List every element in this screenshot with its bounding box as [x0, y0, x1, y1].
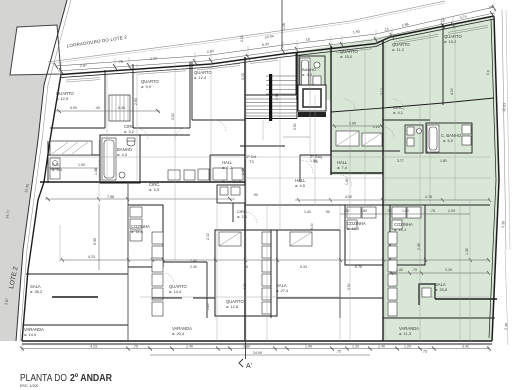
- long wall y182: [40, 181, 245, 183]
- svg-text:a: 9,9: a: 9,9: [141, 84, 152, 89]
- bed diag quarto 12,8: [219, 232, 241, 246]
- internal dim line y111: [55, 110, 160, 112]
- quarto 12,8 walls: [215, 230, 277, 316]
- neighbouring lot grey area top-left: [0, 0, 67, 341]
- svg-text:PLANTA DO: PLANTA DO: [20, 372, 67, 384]
- sala 33,8 bottom wall: [435, 298, 497, 300]
- svg-text:.75: .75: [133, 345, 138, 349]
- svg-text:1.35: 1.35: [465, 248, 469, 255]
- hatched pergola rect: [50, 141, 92, 155]
- dim under green quartos: [331, 125, 383, 127]
- banho walls: [100, 135, 140, 183]
- svg-text:a: 14,0: a: 14,0: [24, 332, 37, 337]
- svg-text:3.50: 3.50: [347, 283, 351, 290]
- svg-text:5.40: 5.40: [118, 106, 125, 110]
- internal dim line y213 right small: [340, 213, 470, 215]
- svg-text:2.38: 2.38: [504, 323, 509, 330]
- svg-text:a: 7,2: a: 7,2: [222, 165, 233, 170]
- right exterior wall: [492, 16, 499, 341]
- svg-text:2.02: 2.02: [240, 35, 244, 42]
- svg-text:1.80: 1.80: [440, 159, 447, 163]
- svg-text:1.40: 1.40: [186, 345, 193, 349]
- svg-text:.15: .15: [439, 18, 445, 23]
- svg-text:a: 15,0: a: 15,0: [340, 54, 353, 59]
- svg-text:.75: .75: [422, 350, 427, 354]
- svg-text:a: 12,9: a: 12,9: [56, 96, 69, 101]
- internal dim line y260: [60, 259, 490, 261]
- svg-text:.75: .75: [412, 268, 417, 272]
- svg-text:4.00: 4.00: [310, 223, 314, 230]
- svg-text:C. BANHO: C. BANHO: [222, 179, 241, 184]
- svg-text:5.00: 5.00: [70, 106, 77, 110]
- hall green walls: [300, 154, 331, 156]
- svg-text:6.76: 6.76: [355, 265, 362, 269]
- svg-text:4.30: 4.30: [450, 88, 454, 95]
- top dimension line upper (overall): [56, 7, 494, 66]
- cbanho middle box: [217, 185, 245, 203]
- green bathroom top right: [299, 56, 325, 94]
- internal dim line y199: [45, 198, 235, 200]
- wall quarto2 bottom: [133, 127, 190, 129]
- svg-text:1.40: 1.40: [305, 345, 312, 349]
- vertical dim 6.90: [98, 205, 100, 270]
- svg-text:2.93: 2.93: [134, 98, 138, 105]
- landing dim tick: [262, 120, 264, 140]
- hall walls middle: [210, 154, 245, 156]
- bottom exterior wall: [22, 340, 492, 342]
- svg-text:2.29: 2.29: [448, 209, 455, 213]
- svg-text:2.80: 2.80: [243, 345, 250, 349]
- ticks on y199/200: [97, 197, 491, 202]
- small fixtures row circ: [168, 170, 180, 180]
- svg-text:.75: .75: [344, 209, 349, 213]
- door swing arcs: [136, 99, 404, 284]
- svg-text:.75: .75: [430, 209, 435, 213]
- cozinha mid walls: [345, 205, 383, 265]
- svg-text:a: 11,5: a: 11,5: [131, 229, 144, 234]
- svg-text:1.20: 1.20: [404, 345, 411, 349]
- stair core: [245, 76, 297, 116]
- svg-text:3.77: 3.77: [397, 159, 404, 163]
- svg-text:1.90: 1.90: [78, 163, 85, 167]
- varanda divider x383 low: [382, 200, 384, 341]
- svg-text:24.90: 24.90: [253, 351, 262, 355]
- tub in top bathroom: [300, 58, 310, 90]
- svg-text:2.45: 2.45: [417, 243, 421, 250]
- internal dim line y200 right: [295, 199, 490, 201]
- svg-text:a: 11,3: a: 11,3: [399, 331, 412, 336]
- green unit left wall top: [296, 52, 298, 100]
- circ 2,4 walls: [232, 203, 234, 222]
- svg-text:a: 4,3: a: 4,3: [117, 152, 128, 157]
- green unit bathroom fixtures: [405, 125, 423, 153]
- laundry walls: [48, 154, 100, 156]
- svg-text:a: 4,1: a: 4,1: [393, 110, 404, 115]
- elevator shaft: [298, 85, 326, 111]
- svg-text:6.90: 6.90: [93, 238, 97, 245]
- svg-text:1.20: 1.20: [352, 345, 359, 349]
- circ 4,1 walls: [383, 119, 430, 121]
- svg-text:.40: .40: [95, 106, 100, 110]
- svg-text:a: 14,4: a: 14,4: [169, 289, 182, 294]
- svg-text:1.48: 1.48: [94, 168, 98, 175]
- svg-text:4.23: 4.23: [90, 345, 97, 349]
- top dim ticks and labels: [54, 5, 496, 74]
- svg-text:7.88: 7.88: [107, 195, 114, 199]
- svg-text:.15: .15: [243, 265, 248, 269]
- wall quarto1 right: [104, 70, 106, 128]
- closet hatch block: [109, 95, 130, 121]
- svg-text:a: 33,8: a: 33,8: [435, 287, 448, 292]
- svg-text:1.40: 1.40: [304, 210, 311, 214]
- svg-text:2.87: 2.87: [80, 63, 87, 68]
- dim line y273 right: [390, 272, 489, 274]
- small rotated interior dims: [94, 23, 490, 310]
- section line A': [245, 341, 247, 359]
- svg-text:a: 3,0: a: 3,0: [302, 72, 313, 77]
- svg-text:.15: .15: [305, 37, 311, 42]
- laundry fixtures: [50, 158, 60, 168]
- svg-text:3.30: 3.30: [171, 113, 175, 120]
- varanda walls left: [23, 324, 128, 326]
- svg-text:A': A': [246, 363, 252, 370]
- bathtub left: [102, 138, 116, 180]
- toilet left banho: [127, 140, 135, 146]
- svg-text:2.40: 2.40: [190, 259, 197, 263]
- svg-text:.90: .90: [253, 193, 258, 197]
- sala36 top wall: [26, 273, 128, 275]
- cozinha green walls: [390, 205, 425, 265]
- svg-text:.75: .75: [386, 209, 391, 213]
- wardrobe column mid: [262, 232, 271, 314]
- quarto 14,4 walls: [163, 261, 207, 263]
- svg-text:2.02: 2.02: [206, 233, 210, 240]
- svg-text:a: 6,0: a: 6,0: [443, 138, 454, 143]
- svg-text:a: 7,4: a: 7,4: [337, 165, 348, 170]
- svg-text:a: 10,1: a: 10,1: [394, 227, 407, 232]
- svg-text:3.10: 3.10: [380, 88, 384, 95]
- svg-text:4.50: 4.50: [345, 195, 352, 199]
- room labels: [24, 34, 463, 337]
- left exterior wall: [22, 75, 61, 342]
- bed diag sala side: [290, 232, 312, 246]
- svg-text:ESC: 1/100: ESC: 1/100: [20, 384, 38, 388]
- svg-text:T3: T3: [313, 159, 318, 164]
- svg-text:1.80: 1.80: [360, 209, 367, 213]
- street line logradouro: [48, 1, 445, 62]
- svg-text:3.43: 3.43: [150, 56, 157, 61]
- wardrobe column green: [388, 232, 397, 316]
- left dim line y168: [48, 167, 98, 169]
- stair right wall: [296, 76, 298, 119]
- bottom dim line 1: [22, 348, 489, 350]
- stair bottom wall: [245, 118, 297, 120]
- svg-text:1.40: 1.40: [345, 178, 349, 185]
- middle unit quarto walls: [295, 53, 297, 95]
- corridor wall y135: [105, 134, 190, 136]
- quarto divider x443: [442, 24, 444, 105]
- extra tiny dims horizontals: [190, 125, 447, 263]
- extra extension lines texture: [22, 30, 489, 352]
- top dimension line lower (segments): [58, 13, 494, 71]
- c.banho 6,0: [426, 123, 472, 153]
- sala 33,8 L-wall feature: [419, 284, 435, 305]
- svg-text:3.38: 3.38: [501, 221, 506, 228]
- svg-text:1.40: 1.40: [378, 345, 385, 349]
- svg-text:a: 36,2: a: 36,2: [30, 289, 43, 294]
- svg-text:a: 4,5: a: 4,5: [295, 183, 306, 188]
- svg-text:5.8: 5.8: [486, 70, 490, 75]
- svg-text:a: 10,1: a: 10,1: [347, 226, 360, 231]
- sala right wall: [127, 182, 129, 341]
- wall quarto2 right: [189, 62, 191, 128]
- svg-text:a: 4,4: a: 4,4: [52, 167, 63, 172]
- wall y205 kitchens: [245, 204, 490, 206]
- svg-text:2.90: 2.90: [275, 93, 279, 100]
- svg-text:a: 12,4: a: 12,4: [194, 75, 207, 80]
- svg-text:1.10: 1.10: [373, 125, 380, 129]
- svg-text:1.80: 1.80: [396, 268, 403, 272]
- svg-text:.75: .75: [336, 350, 341, 354]
- wall quarto3 left: [191, 62, 193, 120]
- lot boundary double line: [16, 0, 67, 341]
- front wall exterior polyline: [61, 16, 494, 75]
- wall under right quartos: [331, 98, 494, 112]
- unit separation wall x245: [244, 57, 246, 341]
- svg-text:1.08: 1.08: [282, 23, 286, 30]
- svg-text:18.03: 18.03: [502, 103, 507, 112]
- wall quarto2 left: [132, 64, 134, 128]
- right boundary extension lines: [502, 10, 506, 250]
- wall quarto1 bottom: [50, 127, 105, 129]
- top-left wall vertical ticks from wall to dims: [61, 2, 494, 77]
- svg-text:1.20: 1.20: [206, 303, 210, 310]
- sala 27,4 walls: [270, 230, 272, 318]
- svg-text:.15: .15: [384, 27, 390, 32]
- wardrobes on green: [336, 131, 359, 146]
- bottom dim line 2 overall: [150, 354, 370, 356]
- svg-text:a: 27,4: a: 27,4: [276, 288, 289, 293]
- svg-text:.90: .90: [325, 210, 330, 214]
- svg-text:2.90: 2.90: [293, 123, 297, 130]
- svg-text:a: 3,3: a: 3,3: [149, 187, 160, 192]
- hall top wall: [331, 150, 400, 152]
- svg-text:2º ANDAR: 2º ANDAR: [70, 372, 112, 384]
- quarto divider x383: [382, 41, 384, 200]
- green apartment fill (right unit): [297, 16, 499, 341]
- svg-text:.76: .76: [118, 60, 123, 64]
- varanda wall green y318: [383, 317, 495, 319]
- svg-text:T3: T3: [249, 159, 254, 164]
- svg-text:2.40: 2.40: [190, 265, 197, 269]
- svg-text:4.23: 4.23: [88, 255, 95, 259]
- varanda middle stepped walls: [152, 297, 182, 299]
- neighbour building white footprint: [10, 25, 61, 75]
- ticks on y273: [390, 271, 490, 275]
- svg-text:4.20: 4.20: [243, 283, 247, 290]
- svg-text:3.39: 3.39: [445, 268, 452, 272]
- section extension line top (A): [281, 0, 283, 48]
- horizontal ext lines: [50, 157, 490, 297]
- svg-text:3.42: 3.42: [462, 345, 469, 349]
- svg-text:a: 3,2: a: 3,2: [124, 129, 135, 134]
- svg-text:5.33: 5.33: [300, 265, 307, 269]
- svg-text:1.48: 1.48: [241, 168, 245, 175]
- wall quarto3 bottom: [192, 119, 245, 121]
- svg-text:1.80: 1.80: [402, 209, 409, 213]
- vertical ext lines grid: [99, 25, 470, 345]
- svg-text:a: 20,4: a: 20,4: [172, 331, 185, 336]
- ticks on internal dim y260: [61, 258, 490, 262]
- svg-text:4.76: 4.76: [425, 195, 432, 199]
- svg-text:a: 12,8: a: 12,8: [226, 304, 239, 309]
- cozinha left walls: [128, 205, 163, 267]
- green wall x331: [330, 46, 332, 175]
- svg-text:a: 11,2: a: 11,2: [392, 47, 405, 52]
- wardrobe column left: [152, 232, 163, 316]
- landing walls: [283, 136, 310, 138]
- stair center stringer: [269, 74, 272, 121]
- window glazing lines along front wall: [66, 25, 488, 82]
- svg-text:3.03: 3.03: [241, 73, 245, 80]
